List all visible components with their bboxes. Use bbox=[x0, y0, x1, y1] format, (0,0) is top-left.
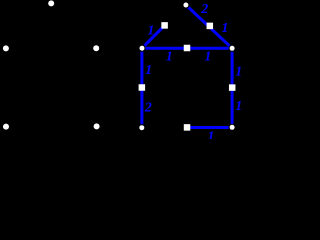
svg-text:1: 1 bbox=[235, 99, 241, 114]
svg-text:1: 1 bbox=[221, 21, 228, 36]
svg-text:1: 1 bbox=[207, 129, 214, 139]
svg-text:2: 2 bbox=[200, 2, 208, 17]
svg-text:1: 1 bbox=[147, 24, 154, 39]
svg-text:1: 1 bbox=[145, 63, 152, 78]
svg-text:1: 1 bbox=[204, 50, 211, 65]
svg-text:1: 1 bbox=[235, 65, 241, 80]
svg-text:1: 1 bbox=[166, 50, 173, 65]
svg-text:2: 2 bbox=[144, 101, 152, 116]
